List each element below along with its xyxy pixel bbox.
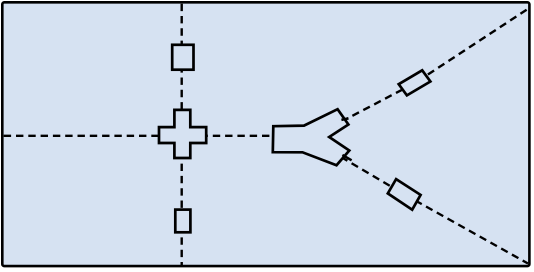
dash tick at upper arm end: [341, 118, 348, 120]
upper diagonal dashed line: [342, 9, 529, 122]
horizontal dashed line: [4, 135, 272, 137]
lower diagonal dashed line: [341, 157, 528, 264]
Y-junction splitter: [273, 109, 350, 165]
top square component: [172, 45, 193, 70]
vertical dashed line: [180, 4, 182, 266]
upper rotated rectangle component: [399, 70, 431, 95]
lower rotated rectangle component: [388, 179, 421, 210]
bottom rectangle component: [175, 210, 190, 233]
dash tick at lower arm end: [342, 155, 351, 160]
cross junction component: [159, 110, 206, 158]
